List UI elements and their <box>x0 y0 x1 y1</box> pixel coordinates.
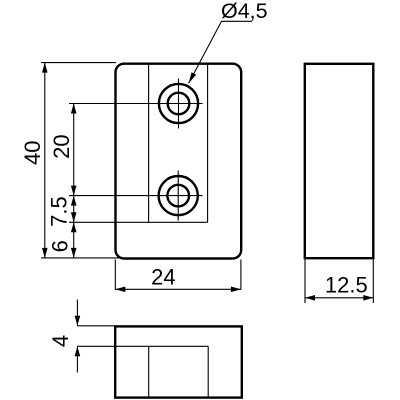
leader arrowhead <box>189 72 196 83</box>
dim 24 extension line right <box>240 260 242 290</box>
recess right edge (front view) <box>207 65 209 223</box>
dim 24 arrow right <box>231 287 241 293</box>
svg-text:40: 40 <box>20 141 45 165</box>
dim 12.5 arrow left <box>305 295 315 301</box>
dim 24 arrow left <box>115 287 125 293</box>
dim 12.5 extension line right <box>372 260 374 304</box>
dim 4 extension line top <box>77 325 115 327</box>
dim 4 upper leader line <box>76 300 78 326</box>
recess left edge (front view) <box>148 65 150 223</box>
svg-text:6: 6 <box>48 240 73 252</box>
svg-text:24: 24 <box>151 265 175 290</box>
leader line for diameter label <box>189 21 252 83</box>
svg-text:7.5: 7.5 <box>47 196 72 227</box>
dim 7.5 arrow down at recess line <box>71 212 77 222</box>
hole H1 outer circle <box>159 84 198 123</box>
dim 40 arrow down <box>42 248 48 258</box>
side view outline <box>305 64 374 258</box>
svg-text:20: 20 <box>49 134 74 158</box>
dim 40 extension line top <box>41 62 116 64</box>
dim 40 extension line bottom <box>41 257 120 259</box>
dim 24 line <box>115 288 241 290</box>
bottom view recess left edge <box>148 346 150 397</box>
dim 24 extension line left <box>114 260 116 290</box>
hole H1 counterbore inner circle <box>168 93 190 115</box>
svg-text:4: 4 <box>48 335 73 347</box>
hole H2 vertical centerline <box>177 171 179 221</box>
hole H2 counterbore inner circle <box>167 185 189 207</box>
front view plate outline <box>116 64 242 259</box>
dim 20 arrow up <box>71 104 77 114</box>
dim 12.5 extension line left <box>304 260 306 304</box>
dim 20 arrow down at H2 centerline <box>71 186 77 196</box>
dim 40 line <box>44 63 46 258</box>
svg-text:12.5: 12.5 <box>325 273 368 298</box>
bottom view recess right edge <box>207 346 209 397</box>
bottom view outline <box>115 326 242 397</box>
hole H2 horizontal centerline / extension <box>69 195 203 197</box>
dim 6 arrow up at recess line <box>71 222 77 232</box>
bottom view recess floor edge + extension for dim 4 <box>77 345 208 347</box>
svg-text:Ø4,5: Ø4,5 <box>221 0 268 23</box>
dim 4 arrow down <box>75 316 81 326</box>
dim 12.5 line <box>305 297 373 299</box>
dim chain line 20/7.5/6 <box>73 104 75 258</box>
recess bottom edge + extension line for 7.5/6 dims <box>69 221 208 223</box>
dim 4 arrow up <box>75 346 81 356</box>
dim 40 arrow up <box>42 63 48 73</box>
hole H1 horizontal centerline / extension <box>69 103 203 105</box>
dim 12.5 arrow right <box>363 295 373 301</box>
dim 4 lower leader line <box>76 346 78 372</box>
hole H2 outer circle <box>159 176 198 215</box>
dim 7.5 arrow up at H2 centerline <box>71 196 77 206</box>
hole H1 vertical centerline <box>178 79 180 129</box>
dim 6 arrow down at plate bottom <box>71 248 77 258</box>
